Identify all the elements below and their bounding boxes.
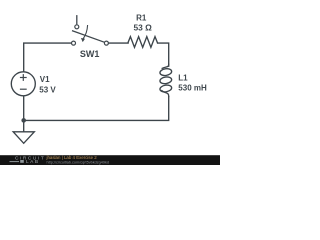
SW1 right terminal circle [104,41,108,45]
wire R1 to top-right corner down to L1 [158,43,169,66]
voltage source V1 [11,72,35,96]
switch SW1 [72,15,109,45]
svg-text:53 V: 53 V [39,86,56,95]
SW1 arrowhead [81,38,85,42]
wire V1 bottom to ground node [23,96,25,120]
V1 minus sign [20,88,27,90]
SW1 blade [72,31,105,43]
svg-text:jhaslan | Lab 4 Exercise 2: jhaslan | Lab 4 Exercise 2 [46,155,98,160]
svg-text:LAB: LAB [26,159,40,165]
resistor R1 [128,37,158,48]
SW1 top terminal circle [75,25,79,29]
svg-text:SW1: SW1 [80,49,100,59]
svg-text:http;//circuitlab.com/cqrt5vbk: http;//circuitlab.com/cqrt5vbkdzg49kd [47,161,109,165]
node: junction dot at ground [21,118,26,123]
watermark banner [0,155,220,165]
CircuitLab logo LAB row [10,161,20,162]
SW1 actuation arrow arc [83,25,88,39]
svg-text:V1: V1 [40,75,50,84]
V1 plus sign [20,74,27,81]
wire L1 bottom to bottom-right corner to ground node [24,97,169,121]
svg-text:L1: L1 [178,73,188,82]
inductor L1 [162,64,169,68]
svg-text:530 mH: 530 mH [178,83,207,92]
SW1 top throw stub [76,15,78,24]
ground stub [23,120,25,131]
wire top-left: V1 top to SW1 left terminal [24,43,72,72]
SW1 left terminal circle [72,41,76,45]
svg-text:R1: R1 [136,14,147,23]
ground [13,132,34,144]
wire SW1 right terminal to R1 [109,42,129,44]
svg-text:53 Ω: 53 Ω [134,22,153,32]
